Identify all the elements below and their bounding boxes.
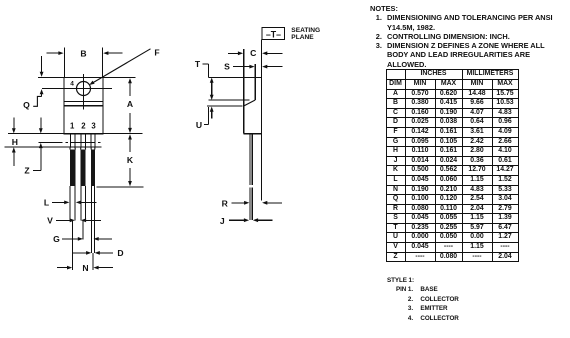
lead 2 flare taper: [80, 147, 82, 150]
tab front face line: [254, 64, 256, 100]
dimension L right arrow: [80, 201, 96, 203]
dimension F leader line to hole: [93, 49, 150, 83]
dimension D right arrow: [99, 252, 113, 254]
lead 1 wide shoulder section: [70, 150, 76, 187]
lead 2 lower extension lines: [80, 186, 82, 220]
svg-text:D: D: [117, 248, 123, 258]
svg-text:J: J: [220, 216, 225, 226]
dimension S right arrow: [267, 66, 283, 68]
dimension H left top arrow: [13, 118, 15, 129]
dimension T double arrow: [210, 78, 214, 83]
dimension V left arrow: [56, 219, 70, 221]
dimension N right arrow: [98, 267, 113, 269]
dimension K top arrow: [129, 139, 131, 152]
dimension K bottom arrow: [129, 168, 131, 182]
lead 2 upper section: [80, 134, 82, 147]
dimension Q top arrow: [41, 56, 43, 72]
svg-text:U: U: [196, 120, 202, 130]
svg-text:4: 4: [70, 81, 74, 88]
lead 1 centerline extension: [72, 220, 74, 270]
zone Z limit line: [5, 146, 102, 148]
dimension C left arrow: [228, 52, 239, 54]
lead 1 upper section: [69, 134, 71, 147]
chamfer between tab and body: [244, 100, 256, 106]
svg-text:N: N: [82, 263, 88, 273]
hole vertical centerline: [83, 74, 85, 109]
svg-text:G: G: [53, 234, 60, 244]
svg-text:V: V: [47, 216, 53, 226]
dimension H bottom arrow: [13, 152, 15, 166]
dimension L left arrow: [52, 201, 65, 203]
svg-text:C: C: [250, 48, 256, 58]
body front face line: [243, 49, 245, 134]
style 1 pinout: [387, 276, 459, 324]
mounting hole (pin 4 collector): [77, 82, 91, 96]
lead 1 flare taper: [69, 147, 72, 150]
svg-text:1: 1: [70, 121, 75, 130]
dimension J right arrow: [258, 219, 273, 221]
svg-text:2: 2: [81, 121, 86, 130]
dimension G right arrow: [98, 238, 112, 240]
svg-text:H: H: [12, 137, 18, 147]
side view lead left edge: [249, 134, 251, 185]
dimension G left arrow: [62, 238, 78, 240]
lead 2 centerline extension: [82, 220, 84, 239]
svg-text:R: R: [222, 199, 229, 209]
dimension N left arrow: [57, 267, 68, 269]
lead 1 lower extension lines: [69, 186, 71, 220]
side view top edge: [208, 77, 261, 79]
svg-text:F: F: [154, 48, 159, 58]
body bottom edge right extension line: [103, 133, 143, 135]
body inner line lower: [64, 105, 103, 107]
lead 3 upper section: [90, 134, 92, 147]
svg-text:Z: Z: [24, 166, 29, 176]
dimension R right arrow: [267, 202, 282, 204]
lead 3 wide shoulder section: [91, 150, 95, 187]
svg-text:S: S: [224, 62, 230, 72]
seating plane datum symbol -T- box: [262, 28, 285, 40]
dimension B right extension line: [102, 48, 104, 78]
dimension B right arrow: [108, 52, 123, 54]
dimension U arrow: [211, 111, 213, 118]
svg-text:A: A: [127, 99, 133, 109]
hole horizontal centerline: [42, 88, 112, 90]
svg-text:–T–: –T–: [266, 30, 281, 40]
svg-text:K: K: [127, 155, 134, 165]
lead 3 flare taper: [90, 147, 92, 150]
dimension B line left arrow: [46, 52, 59, 54]
dimension V right arrow: [86, 219, 102, 221]
lower step extension line: [207, 105, 243, 107]
side view lead right edge: [251, 134, 253, 185]
dimension S left arrow: [233, 66, 250, 68]
body top edge left extension line: [38, 77, 64, 79]
dimension H right top arrow: [40, 118, 42, 129]
lead 3 centerline extension: [92, 253, 94, 270]
seating plane dash-dot line: [39, 142, 102, 144]
body top edge right extension line: [103, 77, 136, 79]
dimension Z arrow: [40, 148, 42, 171]
svg-text:B: B: [80, 48, 86, 58]
svg-text:L: L: [44, 198, 49, 208]
seating plane datum line: [261, 40, 263, 201]
package body outline (front view): [64, 78, 103, 134]
lead 3 lower extension lines: [91, 186, 93, 253]
svg-text:3: 3: [91, 121, 96, 130]
lead 2 wide shoulder section: [81, 150, 86, 187]
svg-text:PLANE: PLANE: [291, 34, 314, 41]
notes block: [370, 4, 570, 69]
svg-text:T: T: [195, 59, 201, 69]
side view body bottom edge: [244, 133, 262, 135]
dimension J left arrow: [229, 219, 245, 221]
dimension R left arrow: [232, 202, 245, 204]
dimension C right arrow: [267, 52, 283, 54]
dimension A top arrow: [129, 83, 131, 96]
dimension K bottom line: [97, 186, 144, 188]
body inner line upper: [64, 101, 103, 103]
dimension A bottom arrow: [129, 113, 131, 129]
body bottom edge left extension line: [8, 133, 64, 135]
dimension B left extension line: [63, 48, 65, 78]
upper step extension line: [208, 99, 249, 101]
dimension Q bottom arrow: [41, 94, 43, 97]
svg-text:Q: Q: [23, 100, 30, 110]
dimension table: [386, 69, 519, 262]
dimension D left arrow: [73, 252, 87, 254]
dimension F leader arrowhead: [89, 81, 94, 85]
